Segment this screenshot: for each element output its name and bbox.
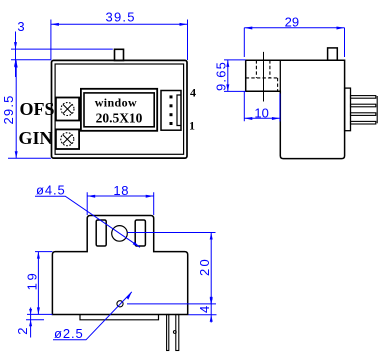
svg-text:18: 18 (113, 183, 129, 198)
svg-text:10: 10 (254, 105, 268, 120)
svg-text:39.5: 39.5 (106, 10, 136, 25)
svg-text:4: 4 (197, 306, 212, 313)
svg-text:9.65: 9.65 (213, 61, 228, 91)
svg-text:2: 2 (15, 328, 30, 335)
svg-text:GIN: GIN (19, 128, 53, 148)
svg-text:20: 20 (197, 257, 212, 276)
svg-text:OFS: OFS (20, 99, 55, 119)
svg-text:ø4.5: ø4.5 (36, 182, 66, 197)
svg-text:4: 4 (190, 85, 196, 99)
svg-text:window: window (95, 95, 137, 109)
svg-text:3: 3 (17, 19, 24, 34)
svg-text:20.5X10: 20.5X10 (96, 110, 143, 125)
svg-text:29: 29 (285, 14, 299, 29)
svg-text:29.5: 29.5 (1, 94, 16, 124)
svg-text:1: 1 (189, 119, 195, 133)
svg-text:19: 19 (24, 271, 39, 291)
svg-text:ø2.5: ø2.5 (54, 326, 84, 341)
